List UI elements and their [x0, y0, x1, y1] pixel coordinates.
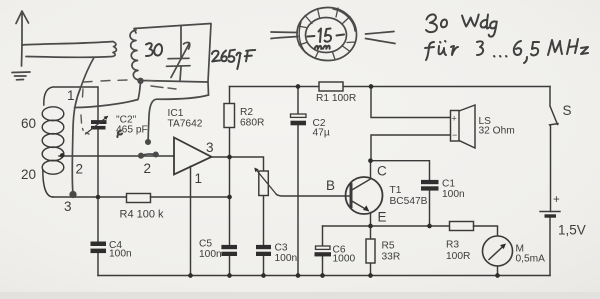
- transistor emitter: [351, 201, 371, 227]
- switch S: [550, 87, 559, 212]
- sketch dashed marks: [81, 80, 176, 134]
- potentiometer arrow: [256, 170, 277, 195]
- junction tap3 node at C4: [96, 195, 101, 200]
- bottom rail: [98, 275, 550, 277]
- svg-text:B: B: [326, 178, 335, 193]
- svg-text:60: 60: [21, 116, 36, 131]
- handwritten fuer 3...6,5 MHz: [425, 42, 434, 60]
- svg-text:2: 2: [76, 162, 84, 177]
- emitter wire / E net: [323, 225, 450, 227]
- transistor T1 circle: [346, 177, 383, 214]
- capacitor C2 trimmer plates: [91, 120, 107, 129]
- svg-text:3: 3: [206, 140, 214, 155]
- transistor collector: [351, 161, 371, 191]
- sketch wire from antenna area down to tap 3: [72, 58, 94, 194]
- handwritten 30 Wdg: [426, 14, 437, 32]
- battery plates: [540, 211, 560, 213]
- svg-text:R1 100R: R1 100R: [316, 93, 356, 104]
- capacitor C3 plates and vertical: [263, 196, 265, 276]
- junction ground rail C5: [227, 273, 232, 278]
- junction R4 to output node: [227, 195, 232, 200]
- sketch wire B from box to IC input: [148, 95, 208, 140]
- antenna hairpin wire: [22, 42, 116, 58]
- junction ground rail pin1: [188, 273, 193, 278]
- toroid sketch: [271, 7, 395, 60]
- transistor T1 base bar: [350, 185, 353, 207]
- svg-text:+: +: [452, 114, 457, 124]
- meter M circle: [483, 236, 513, 266]
- svg-text:100n: 100n: [199, 249, 222, 260]
- svg-text:+: +: [553, 194, 560, 206]
- svg-text:C5: C5: [199, 239, 212, 250]
- potentiometer box: [259, 171, 269, 196]
- svg-text:100n: 100n: [442, 189, 465, 200]
- junction top rail speaker: [369, 84, 374, 89]
- svg-text:1000: 1000: [333, 254, 356, 265]
- coil bottom lead to tap 3: [43, 170, 53, 197]
- svg-text:1,5V: 1,5V: [558, 223, 586, 238]
- sketch wire A from coil blob to tap 3 line: [75, 82, 141, 108]
- output wire pin3: [212, 156, 230, 158]
- handwritten 265pF: [212, 51, 220, 62]
- wire tap2 to IC input: [59, 155, 174, 157]
- junction collector node: [368, 158, 373, 163]
- top rail: [230, 86, 551, 88]
- svg-text:R4 100 k: R4 100 k: [120, 209, 165, 221]
- resistor R3: [450, 222, 474, 231]
- speaker LS box: [451, 111, 460, 142]
- coil L1 loops: [42, 107, 64, 121]
- junction coil tap 2: [60, 153, 65, 158]
- svg-text:1: 1: [67, 88, 75, 103]
- capacitor C6 leads: [322, 226, 324, 276]
- wire tap3 / R4 left: [53, 196, 127, 198]
- svg-text:R5: R5: [382, 241, 395, 252]
- svg-text:S: S: [563, 103, 572, 118]
- hand-drawn pencil layer: [12, 7, 395, 197]
- svg-text:T1: T1: [390, 185, 402, 196]
- printed text labels: [21, 88, 586, 265]
- C2 trimmer arrow: [86, 117, 108, 134]
- junction ground rail C3: [261, 273, 266, 278]
- junction ground rail C2: [296, 273, 301, 278]
- svg-text:−: −: [452, 130, 457, 140]
- handwritten -15- in toroid: [308, 35, 315, 38]
- svg-text:BC547B: BC547B: [390, 196, 428, 207]
- svg-text:3: 3: [64, 199, 72, 214]
- wire output to potentiometer: [230, 157, 264, 171]
- resistor R4: [127, 194, 151, 203]
- svg-text:20: 20: [21, 167, 36, 182]
- sketch box for new coil: [134, 24, 211, 96]
- C6 plates (electrolytic): [316, 246, 331, 249]
- junction ground rail meter: [495, 273, 500, 278]
- speaker cone: [459, 105, 475, 148]
- toroid wires: [271, 32, 298, 39]
- svg-text:32 Ohm: 32 Ohm: [479, 126, 515, 137]
- printed schematic: [42, 82, 560, 276]
- resistor R2: [229, 87, 231, 158]
- antenna arrow: [16, 11, 29, 45]
- sketch variable capacitor 265pF: [167, 26, 191, 82]
- junction top rail C2: [296, 84, 301, 89]
- wire R4 to node: [151, 196, 230, 198]
- coil L1 top lead and tap-1 wire: [44, 87, 97, 105]
- svg-text:680R: 680R: [240, 118, 264, 129]
- junction ground rail C6: [320, 273, 325, 278]
- op-amp IC1 triangle: [174, 138, 212, 175]
- collector node wire to C1: [371, 161, 430, 180]
- sketch coil 30 turns: [130, 30, 140, 80]
- handwritten 30 in box: [146, 43, 153, 56]
- svg-text:IC1: IC1: [168, 108, 184, 119]
- wire pot wiper to base: [277, 195, 352, 197]
- junction C1 to emitter wire: [427, 224, 432, 229]
- junction ground rail R5: [368, 273, 373, 278]
- svg-text:100R: 100R: [446, 251, 470, 262]
- svg-text:R2: R2: [240, 107, 253, 118]
- svg-text:100n: 100n: [275, 253, 298, 264]
- svg-text:47µ: 47µ: [313, 128, 330, 139]
- junction emitter node: [368, 224, 373, 229]
- speaker feed wires: [371, 87, 451, 118]
- svg-text:0,5mA: 0,5mA: [516, 254, 546, 265]
- capacitor C4 plates: [91, 242, 107, 254]
- svg-text:TA7642: TA7642: [168, 119, 203, 130]
- pin 1 vertical wire: [190, 166, 192, 275]
- C2 electrolytic vertical: [297, 87, 299, 276]
- junction IC output node: [227, 155, 232, 160]
- svg-text:E: E: [378, 210, 387, 225]
- antenna down lead: [21, 45, 24, 66]
- capacitor C1 plates: [421, 180, 439, 191]
- svg-text:100n: 100n: [109, 249, 132, 260]
- resistor R5: [370, 226, 372, 276]
- svg-text:R3: R3: [446, 240, 459, 251]
- vertical node line x=98 (tap1 to C2 trimmer to tap3 node): [97, 87, 99, 276]
- svg-text:C3: C3: [275, 242, 288, 253]
- pencil squiggle under 465pF: [117, 131, 122, 138]
- resistor R1: [319, 82, 343, 91]
- svg-text:33R: 33R: [382, 252, 401, 263]
- ground: [12, 72, 30, 80]
- sketch cut marks on tap2 wire: [142, 154, 157, 155]
- toroid winding marks: [298, 8, 356, 60]
- handwritten annotations: [117, 14, 588, 137]
- node vertical to C5: [229, 157, 231, 276]
- svg-text:2: 2: [144, 161, 152, 176]
- svg-text:1: 1: [195, 171, 203, 186]
- C2 47u plates: [291, 114, 307, 117]
- capacitor C5 plates: [221, 245, 237, 256]
- svg-text:C: C: [377, 164, 387, 179]
